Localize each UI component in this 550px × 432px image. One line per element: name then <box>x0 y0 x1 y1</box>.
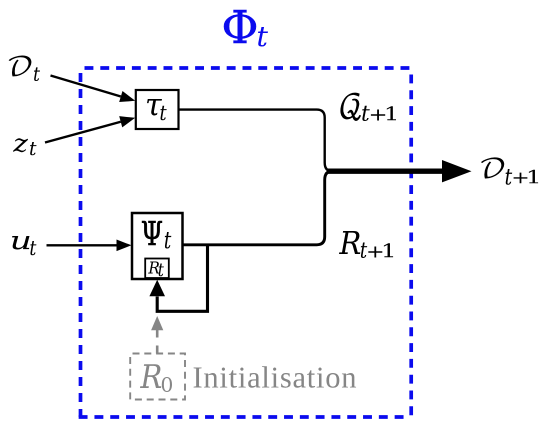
svg-text:Initialisation: Initialisation <box>193 361 357 395</box>
